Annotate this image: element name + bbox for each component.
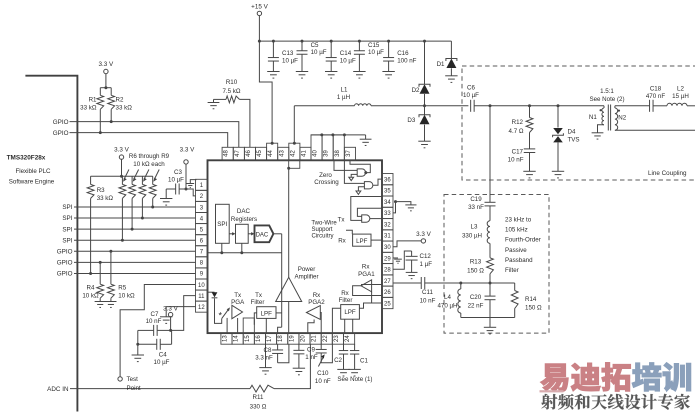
svg-text:SPI: SPI bbox=[62, 204, 72, 211]
svg-text:C13: C13 bbox=[282, 50, 294, 57]
capacitor C11 bbox=[421, 277, 425, 289]
ground pin 12 bbox=[160, 317, 172, 324]
svg-text:GPIO: GPIO bbox=[57, 248, 73, 255]
svg-text:R11: R11 bbox=[253, 394, 264, 401]
svg-text:Software Engine: Software Engine bbox=[9, 179, 55, 186]
svg-text:C17: C17 bbox=[512, 148, 524, 155]
svg-text:3.3 V: 3.3 V bbox=[99, 61, 115, 68]
svg-text:TVS: TVS bbox=[568, 137, 580, 144]
wire R11 to pin 20/21 bbox=[274, 344, 310, 388]
svg-text:105 kHz: 105 kHz bbox=[505, 227, 528, 234]
resistor R4 bbox=[99, 261, 102, 264]
svg-text:22: 22 bbox=[323, 335, 329, 342]
wire pin 28 to C12 bbox=[393, 251, 412, 269]
capacitor C7 bbox=[157, 329, 170, 331]
IC main body bbox=[208, 160, 383, 333]
svg-text:47: 47 bbox=[235, 150, 241, 157]
wire Rx LPF bottom stubs bbox=[344, 319, 346, 333]
wire GPIO row 1 bbox=[70, 122, 239, 148]
svg-text:SPI: SPI bbox=[217, 221, 227, 228]
svg-text:15 µH: 15 µH bbox=[672, 93, 689, 100]
pin boxes bottom (13-24) bbox=[221, 318, 355, 344]
LPF Rx filter bbox=[341, 305, 360, 320]
svg-text:1.5:1: 1.5:1 bbox=[600, 88, 614, 95]
wire +15V to pin 44 bbox=[259, 41, 272, 143]
wire GPIO row 2 bbox=[70, 133, 228, 148]
svg-text:30: 30 bbox=[384, 245, 391, 251]
svg-text:18: 18 bbox=[278, 335, 284, 342]
ground C12 bbox=[406, 272, 418, 278]
svg-text:23: 23 bbox=[334, 335, 340, 342]
svg-text:L2: L2 bbox=[677, 85, 684, 92]
svg-text:Crossing: Crossing bbox=[314, 179, 339, 186]
resistor R5 bbox=[109, 250, 112, 253]
svg-text:C1: C1 bbox=[360, 357, 368, 364]
svg-text:Filter: Filter bbox=[339, 297, 353, 304]
node clamp junction bbox=[423, 104, 426, 107]
wire ADC IN row bbox=[70, 388, 250, 390]
wire DAC output to Tx filter bbox=[273, 233, 281, 235]
wire pin 12 to ground bbox=[166, 307, 195, 317]
passband filter dashed box bbox=[444, 195, 549, 334]
svg-text:39: 39 bbox=[324, 150, 330, 157]
wire C18 to L2 bbox=[653, 105, 667, 107]
svg-text:R6 through R9: R6 through R9 bbox=[129, 153, 170, 160]
ground pin 16 bbox=[259, 368, 271, 375]
test point bbox=[118, 377, 122, 381]
svg-text:10: 10 bbox=[198, 283, 205, 289]
resistor R6 bbox=[121, 176, 123, 184]
svg-text:10 kΩ: 10 kΩ bbox=[82, 292, 99, 299]
wire gate output to pin 32/33 bbox=[370, 218, 382, 220]
capacitor C19 bbox=[485, 202, 496, 206]
resistor R2 bbox=[110, 88, 112, 96]
svg-text:C16: C16 bbox=[397, 50, 409, 57]
svg-text:R13: R13 bbox=[470, 259, 482, 266]
wire C6 to transformer bbox=[474, 105, 604, 107]
resistor R7 bbox=[131, 176, 133, 184]
svg-text:10 nF: 10 nF bbox=[508, 157, 524, 164]
ground N1 bbox=[592, 133, 604, 139]
svg-text:DAC: DAC bbox=[237, 208, 251, 215]
svg-text:TMS320F28x: TMS320F28x bbox=[7, 155, 46, 162]
Tx PGA gain switch arrow bbox=[222, 309, 229, 318]
svg-text:150 Ω: 150 Ω bbox=[525, 304, 542, 311]
wire Rx PGA2 output stub bbox=[319, 313, 322, 334]
inductor L3 bbox=[487, 221, 490, 244]
svg-text:40: 40 bbox=[313, 150, 319, 157]
SPI block bbox=[216, 204, 230, 243]
svg-text:L4: L4 bbox=[444, 294, 451, 301]
wire Tx filter hook to pin 17 bbox=[278, 327, 282, 333]
diode D4 TVS bbox=[557, 106, 559, 128]
capacitor C15 bbox=[358, 40, 361, 43]
svg-text:SPI: SPI bbox=[62, 237, 72, 244]
svg-text:11: 11 bbox=[198, 294, 205, 300]
svg-text:DAC: DAC bbox=[256, 232, 269, 238]
svg-text:41: 41 bbox=[301, 150, 307, 157]
svg-text:C2: C2 bbox=[334, 357, 342, 364]
svg-text:C19: C19 bbox=[470, 196, 482, 203]
svg-text:10 nF: 10 nF bbox=[420, 298, 436, 305]
svg-text:LPF: LPF bbox=[344, 309, 356, 316]
svg-text:ADC IN: ADC IN bbox=[47, 386, 69, 393]
wire gate1 input A bbox=[334, 160, 357, 170]
TMS320F28x host bus (thick L line) bbox=[25, 76, 77, 412]
svg-text:Circuitry: Circuitry bbox=[312, 234, 334, 240]
capacitor C8 bbox=[277, 344, 279, 350]
wire gate2 input A bbox=[344, 160, 364, 183]
capacitor C9 bbox=[298, 344, 300, 350]
wire Rx PGA1 apex to pin 27 line bbox=[361, 284, 382, 286]
wire Rx PGA1 to pin 26 bbox=[353, 286, 382, 296]
svg-text:33 kΩ: 33 kΩ bbox=[80, 105, 97, 112]
capacitor C14 bbox=[330, 40, 333, 43]
wire Tx PGA to pin 13 bbox=[226, 318, 228, 333]
arrow SPI to DAC registers bbox=[229, 233, 233, 235]
wire DAC registers stub bbox=[241, 243, 243, 252]
svg-text:Fourth-Order: Fourth-Order bbox=[505, 237, 541, 244]
resistor R12 bbox=[529, 106, 531, 118]
svg-text:470 nF: 470 nF bbox=[646, 93, 665, 100]
wire SPI row pin 4 bbox=[74, 217, 196, 219]
svg-text:330 Ω: 330 Ω bbox=[250, 403, 267, 410]
svg-text:GPIO: GPIO bbox=[53, 119, 69, 126]
gate zero crossing 2 bbox=[364, 182, 372, 189]
svg-text:17: 17 bbox=[267, 335, 273, 342]
ground filter bbox=[484, 327, 496, 334]
svg-text:21: 21 bbox=[312, 335, 318, 342]
resistor R8 bbox=[141, 176, 143, 184]
inductor L2 bbox=[667, 103, 687, 105]
svg-text:5: 5 bbox=[200, 227, 204, 233]
svg-text:22 nF: 22 nF bbox=[468, 303, 484, 310]
DAC registers box bbox=[236, 224, 249, 243]
resistor R3 bbox=[90, 176, 92, 184]
capacitor C5 bbox=[301, 40, 304, 43]
wire 3.3V to R1/R2 bbox=[105, 74, 107, 88]
svg-text:25: 25 bbox=[384, 301, 391, 307]
capacitor C13 bbox=[272, 40, 275, 43]
svg-text:42: 42 bbox=[290, 150, 296, 157]
svg-text:See Note (2): See Note (2) bbox=[589, 96, 624, 103]
svg-text:R3: R3 bbox=[97, 187, 105, 194]
node pin 44 supply entry bbox=[271, 142, 274, 145]
svg-text:4.7 Ω: 4.7 Ω bbox=[509, 128, 524, 135]
svg-text:150 Ω: 150 Ω bbox=[467, 267, 484, 274]
inductor L1 bbox=[355, 104, 372, 106]
wire diode to Tx PGA switch bbox=[215, 299, 222, 324]
svg-text:32: 32 bbox=[384, 222, 391, 228]
svg-text:C10: C10 bbox=[317, 370, 329, 377]
svg-text:R4: R4 bbox=[87, 284, 95, 291]
svg-text:PGA: PGA bbox=[231, 299, 245, 306]
svg-text:C3: C3 bbox=[174, 169, 182, 176]
svg-text:Amplifier: Amplifier bbox=[294, 274, 318, 281]
ground R5 bbox=[105, 302, 116, 308]
svg-text:D3: D3 bbox=[407, 117, 415, 124]
wire R10 left to ground bbox=[214, 98, 227, 100]
svg-text:Two-Wire: Two-Wire bbox=[311, 220, 337, 226]
wire Rx LPF to pin 25 bbox=[359, 303, 382, 308]
watermark logo text 易迪拓培训 bbox=[540, 364, 568, 392]
svg-text:10 µF: 10 µF bbox=[154, 359, 170, 366]
wire Rx LPF left stub bbox=[332, 308, 340, 333]
capacitor C2 bbox=[343, 344, 345, 350]
svg-text:Support: Support bbox=[311, 227, 332, 233]
svg-text:R5: R5 bbox=[118, 284, 126, 291]
svg-text:LPF: LPF bbox=[261, 310, 273, 317]
svg-text:D4: D4 bbox=[568, 128, 576, 135]
wire C7/C4 left junction bbox=[137, 330, 139, 355]
pin boxes left (1-12) bbox=[196, 179, 208, 312]
svg-text:33 nF: 33 nF bbox=[468, 204, 484, 211]
svg-text:44: 44 bbox=[268, 150, 274, 157]
leader arrows to R6-R9 bbox=[124, 170, 129, 180]
wire GPIO row pin 7 bbox=[74, 250, 196, 252]
wire L1 line left bbox=[294, 105, 354, 107]
svg-text:1 µF: 1 µF bbox=[420, 261, 433, 268]
svg-text:SPI: SPI bbox=[62, 226, 72, 233]
DAC block bbox=[255, 225, 274, 242]
svg-text:R14: R14 bbox=[525, 296, 537, 303]
svg-text:C20: C20 bbox=[470, 294, 482, 301]
resistor R9 bbox=[152, 176, 154, 184]
wire LPF to pin 31 bbox=[371, 239, 382, 241]
svg-text:23 kHz to: 23 kHz to bbox=[505, 217, 532, 224]
amplifier Power Amplifier bbox=[276, 277, 302, 301]
wire SPI row pin 5 bbox=[74, 228, 196, 230]
svg-text:C15: C15 bbox=[368, 42, 380, 49]
svg-text:3.3 V: 3.3 V bbox=[114, 146, 130, 153]
inductor L4 bbox=[460, 283, 462, 289]
svg-text:C14: C14 bbox=[340, 50, 352, 57]
svg-text:Filter: Filter bbox=[251, 299, 265, 306]
wire SPI bus from pin 7 row bbox=[208, 252, 282, 254]
wire Rx input to LPF bbox=[346, 230, 352, 234]
capacitor C10 bbox=[320, 344, 322, 349]
svg-text:14: 14 bbox=[234, 335, 240, 342]
capacitor C17 bbox=[529, 133, 531, 149]
wire pin 33 to gate input A bbox=[357, 208, 382, 216]
svg-text:46: 46 bbox=[246, 150, 252, 157]
svg-text:Power: Power bbox=[298, 266, 316, 273]
wire GPIO row pin 8 bbox=[74, 261, 196, 263]
svg-text:L1: L1 bbox=[341, 87, 348, 94]
svg-text:R10: R10 bbox=[226, 79, 238, 86]
svg-text:9: 9 bbox=[200, 272, 204, 278]
capacitor C6 bbox=[471, 100, 475, 112]
wire R13 to node bbox=[489, 274, 491, 283]
ground D3 bbox=[418, 141, 430, 148]
ground C14 bbox=[325, 72, 337, 79]
diode D2 bbox=[424, 41, 426, 84]
amplifier Rx PGA2 bbox=[306, 306, 320, 320]
svg-text:10 kΩ each: 10 kΩ each bbox=[133, 161, 165, 168]
svg-text:2: 2 bbox=[200, 194, 204, 200]
diode internal (pin 11) bbox=[208, 291, 215, 293]
svg-text:See Note (1): See Note (1) bbox=[337, 376, 372, 383]
svg-text:GPIO: GPIO bbox=[57, 260, 73, 267]
svg-text:34: 34 bbox=[384, 200, 391, 206]
svg-text:10 nF: 10 nF bbox=[146, 318, 162, 325]
svg-text:1 nF: 1 nF bbox=[305, 354, 318, 361]
wire LPF right stub bbox=[276, 312, 282, 314]
pin boxes top (37-48) bbox=[222, 135, 355, 160]
svg-text:100 nF: 100 nF bbox=[397, 58, 416, 65]
svg-text:33: 33 bbox=[384, 211, 391, 217]
ground R10 bbox=[208, 103, 220, 109]
svg-text:48: 48 bbox=[224, 150, 230, 157]
wire gate1 input B marker bbox=[351, 174, 357, 177]
ground pin 34 (small) bbox=[405, 205, 416, 211]
svg-text:4: 4 bbox=[200, 216, 204, 222]
svg-text:GPIO: GPIO bbox=[53, 130, 69, 137]
wire line node to C19 bbox=[489, 106, 491, 203]
wire pin 29 to small ground bbox=[393, 257, 398, 259]
svg-text:10 kΩ: 10 kΩ bbox=[118, 292, 135, 299]
ground C13 bbox=[267, 72, 279, 79]
svg-text:Test: Test bbox=[127, 376, 139, 383]
wire gate1 output to pin 37 bbox=[364, 171, 367, 174]
capacitor C3 bbox=[179, 188, 186, 190]
svg-text:33 kΩ: 33 kΩ bbox=[116, 105, 133, 112]
ground D4 bbox=[552, 171, 564, 178]
gate zero crossing 1 bbox=[357, 169, 365, 176]
wire 3.3V bar bbox=[121, 159, 123, 176]
ground C2 bbox=[337, 369, 349, 376]
svg-text:C9: C9 bbox=[307, 347, 315, 354]
wire pin 34 to pin 33 bbox=[393, 202, 396, 213]
wire Rx PGA1 base to pin 25 line bbox=[371, 292, 373, 303]
svg-text:C5: C5 bbox=[311, 42, 319, 49]
svg-text:6: 6 bbox=[200, 239, 204, 245]
wire SPI box stub bbox=[221, 243, 223, 252]
svg-text:Rx: Rx bbox=[362, 264, 370, 271]
svg-text:13: 13 bbox=[223, 335, 229, 342]
svg-text:15: 15 bbox=[245, 335, 251, 342]
svg-text:8: 8 bbox=[200, 261, 204, 267]
ground C5 bbox=[296, 72, 308, 79]
wire L1 to clamp node bbox=[371, 105, 425, 107]
svg-text:Passive: Passive bbox=[505, 247, 527, 254]
svg-text:36: 36 bbox=[384, 177, 391, 183]
wire SPI row pin 3 bbox=[74, 206, 196, 208]
svg-text:7: 7 bbox=[200, 250, 204, 256]
svg-text:45: 45 bbox=[257, 150, 263, 157]
ground pin 1 (small) bbox=[186, 184, 194, 188]
wire rail to ground bbox=[489, 318, 491, 328]
ground pin 29 (small) bbox=[394, 259, 402, 263]
svg-text:19: 19 bbox=[289, 335, 295, 342]
capacitor C18 bbox=[650, 100, 654, 112]
ground C9 bbox=[293, 368, 305, 375]
svg-text:20: 20 bbox=[300, 335, 306, 342]
svg-text:*: * bbox=[219, 311, 223, 321]
svg-text:29: 29 bbox=[384, 256, 391, 262]
arrow C10 (variable) bbox=[318, 357, 323, 366]
svg-text:470 µH: 470 µH bbox=[437, 303, 457, 310]
wire C3 to ground bbox=[165, 189, 167, 199]
wire SPI row pin 6 bbox=[74, 239, 196, 241]
wire 3.3V node to pin 2 bbox=[186, 189, 196, 196]
svg-text:L3: L3 bbox=[471, 224, 478, 231]
svg-text:GPIO: GPIO bbox=[57, 271, 73, 278]
transformer core bbox=[607, 105, 609, 131]
svg-text:3.3 V: 3.3 V bbox=[180, 147, 196, 154]
svg-text:37: 37 bbox=[346, 150, 352, 157]
line coupling dashed box bbox=[462, 66, 695, 180]
svg-text:43: 43 bbox=[279, 150, 285, 157]
svg-text:C6: C6 bbox=[467, 84, 475, 91]
ground C1 bbox=[348, 369, 360, 376]
svg-text:Flexible PLC: Flexible PLC bbox=[15, 168, 51, 175]
wire pin 27 to C11 bbox=[393, 282, 421, 284]
watermark slogan 射频和天线设计专家 bbox=[541, 394, 557, 410]
svg-text:R1: R1 bbox=[89, 97, 97, 104]
ground R12/C17 bbox=[523, 171, 535, 178]
capacitor C16 bbox=[387, 40, 390, 43]
svg-text:28: 28 bbox=[384, 268, 391, 274]
wire pin 16 to ground bbox=[265, 344, 267, 367]
svg-text:10 µF: 10 µF bbox=[168, 177, 184, 184]
svg-text:10 nF: 10 nF bbox=[315, 378, 331, 385]
wire pin 1 to small ground bbox=[190, 180, 196, 184]
svg-text:10 µF: 10 µF bbox=[282, 58, 298, 65]
svg-text:SPI: SPI bbox=[62, 215, 72, 222]
svg-text:Tx: Tx bbox=[234, 292, 242, 299]
svg-text:C4: C4 bbox=[159, 351, 167, 358]
svg-text:Filter: Filter bbox=[505, 267, 519, 274]
capacitor C12 bbox=[411, 251, 413, 256]
amplifier Tx PGA bbox=[232, 305, 243, 318]
diode D1 bbox=[450, 41, 452, 58]
svg-text:10 µF: 10 µF bbox=[463, 92, 479, 99]
wire pin 14 stub bbox=[237, 318, 239, 333]
resistor R11 bbox=[250, 385, 274, 392]
svg-text:Point: Point bbox=[127, 385, 141, 392]
wire LPF bottom stub bbox=[265, 318, 267, 333]
resistor R13 bbox=[487, 258, 494, 274]
svg-text:PGA2: PGA2 bbox=[308, 299, 325, 306]
wire pin 11 to 3.3V node bbox=[171, 296, 196, 331]
watermark underline bbox=[540, 390, 564, 392]
ground R4 bbox=[95, 302, 106, 308]
svg-text:R12: R12 bbox=[512, 119, 524, 126]
wire L2 to line bbox=[687, 105, 695, 107]
svg-text:R2: R2 bbox=[116, 97, 124, 104]
ground D1 bbox=[445, 76, 457, 83]
resistor R14 bbox=[514, 283, 516, 291]
svg-text:D1: D1 bbox=[437, 61, 445, 68]
wire C19 to L3 bbox=[489, 206, 491, 221]
resistor R1 bbox=[99, 88, 101, 96]
wire +15V rail bbox=[259, 40, 451, 42]
wire GPIO row pin 9 bbox=[74, 272, 196, 274]
svg-text:C11: C11 bbox=[422, 289, 433, 296]
wire L3 to R13 bbox=[489, 243, 491, 257]
wire C8 to pin 18 bbox=[278, 344, 289, 363]
LPF Tx filter bbox=[257, 307, 276, 319]
svg-text:C7: C7 bbox=[151, 311, 159, 318]
svg-text:Tx: Tx bbox=[255, 292, 263, 299]
svg-text:Line Coupling: Line Coupling bbox=[648, 170, 687, 177]
svg-text:12: 12 bbox=[198, 305, 205, 311]
capacitor C1 bbox=[354, 344, 356, 350]
wire N2 top to C18 bbox=[615, 105, 650, 107]
svg-text:1 µH: 1 µH bbox=[337, 94, 350, 101]
svg-text:3.3 nF: 3.3 nF bbox=[255, 355, 273, 362]
